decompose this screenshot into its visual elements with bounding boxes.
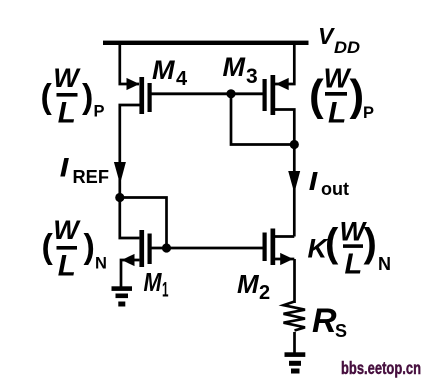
svg-text:): ) xyxy=(82,78,93,116)
svg-text:(: ( xyxy=(309,71,324,120)
svg-text:P: P xyxy=(94,103,105,121)
wire R_S to ground xyxy=(293,332,296,353)
transistor M2 (NMOS) xyxy=(263,229,295,266)
I_out current arrow xyxy=(288,171,300,193)
V_DD label xyxy=(318,23,360,57)
svg-text:W: W xyxy=(53,63,81,93)
transistor M1 (NMOS) xyxy=(121,230,152,287)
I_out label xyxy=(309,172,349,199)
wire gate line to M3 drain (diode connection) xyxy=(231,94,294,145)
label (W/L)_P right xyxy=(309,63,374,130)
ground (below M1) xyxy=(112,286,133,306)
svg-text:): ) xyxy=(84,228,95,266)
wire M4 drain down to M1 drain xyxy=(120,105,144,238)
svg-text:P: P xyxy=(363,104,374,122)
wire M3 drain down to M2 drain xyxy=(275,110,294,237)
svg-text:(: ( xyxy=(325,221,339,265)
node C (gate line junction) xyxy=(226,89,235,98)
wire VDD rail to M4 source xyxy=(120,43,139,84)
svg-text:M: M xyxy=(152,55,175,85)
wire M2 source to resistor R_S xyxy=(293,259,296,303)
M4 label xyxy=(152,55,188,90)
svg-text:L: L xyxy=(345,249,363,281)
svg-text:2: 2 xyxy=(259,282,270,304)
svg-text:W: W xyxy=(53,215,81,245)
svg-text:N: N xyxy=(95,255,107,273)
ground (below R_S) xyxy=(285,352,306,373)
svg-text:M: M xyxy=(223,52,246,82)
svg-text:1: 1 xyxy=(162,279,169,302)
M2 label xyxy=(237,269,270,304)
resistor R_S xyxy=(284,302,306,331)
label (W/L)_N left xyxy=(42,215,107,283)
svg-text:L: L xyxy=(328,97,346,130)
svg-text:out: out xyxy=(321,179,349,199)
node D (M3 drain junction) xyxy=(290,140,299,149)
M3 label xyxy=(223,52,258,88)
svg-text:R: R xyxy=(312,302,337,340)
label K(W/L)_N right xyxy=(308,217,392,281)
svg-text:DD: DD xyxy=(334,38,360,57)
svg-text:(: ( xyxy=(41,78,53,116)
node B (M1 gate junction) xyxy=(162,243,171,252)
svg-text:V: V xyxy=(318,23,335,49)
wire VDD rail to M3 source xyxy=(275,43,294,84)
svg-text:L: L xyxy=(58,250,76,283)
svg-text:): ) xyxy=(350,71,365,120)
M1 label xyxy=(144,267,169,302)
R_S label xyxy=(312,302,347,341)
transistor M3 (PMOS) xyxy=(263,75,289,115)
svg-text:REF: REF xyxy=(73,167,110,187)
svg-text:L: L xyxy=(58,97,76,130)
svg-text:): ) xyxy=(364,221,377,265)
wire M4 gate to M3 gate xyxy=(152,92,263,95)
I_REF label xyxy=(60,158,109,187)
svg-text:N: N xyxy=(378,254,391,274)
svg-text:(: ( xyxy=(42,228,54,266)
svg-text:4: 4 xyxy=(176,68,188,90)
node A (I_REF / M1 gate-drain junction) xyxy=(115,193,124,202)
svg-text:M: M xyxy=(144,267,163,297)
VDD rail xyxy=(103,41,309,45)
svg-text:M: M xyxy=(237,269,260,299)
wire M1 gate to M2 gate xyxy=(152,247,263,250)
transistor M4 (PMOS) xyxy=(127,77,152,114)
I_REF current arrow xyxy=(114,162,126,184)
svg-text:S: S xyxy=(335,321,347,341)
wire node A to M1 gate xyxy=(120,198,167,249)
label (W/L)_P left xyxy=(41,63,105,130)
svg-text:3: 3 xyxy=(246,65,258,88)
svg-text:bbs.eetop.cn: bbs.eetop.cn xyxy=(341,358,421,378)
svg-text:W: W xyxy=(324,63,352,94)
